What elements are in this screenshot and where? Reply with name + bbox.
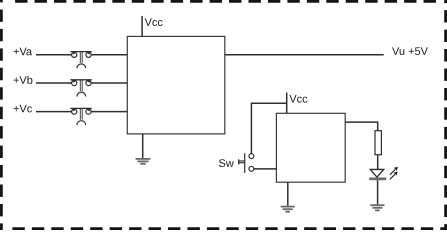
node +Vc: [14, 105, 32, 113]
wire: [91, 54, 127, 56]
connector J3: [70, 108, 91, 125]
connector J1: [70, 52, 91, 69]
ground: [136, 159, 151, 164]
wire (LED to ground): [377, 180, 379, 204]
wire: [36, 82, 72, 84]
ground: [370, 205, 384, 210]
node Vu +5V: [392, 47, 428, 55]
net Vcc (U2): [287, 93, 308, 114]
node +Vb: [14, 76, 33, 84]
connector J2: [70, 80, 91, 97]
wire (resistor to LED): [377, 155, 379, 170]
pushbutton Sw: [239, 153, 254, 173]
wire: [91, 82, 127, 84]
LED D1: [369, 167, 398, 180]
wire (U2 output to resistor): [345, 122, 378, 131]
wire (U2 ground lead): [287, 182, 289, 206]
IC U2: [276, 113, 345, 182]
node +Va: [14, 48, 33, 56]
wire (switch to U2): [254, 168, 276, 170]
wire (Vcc to switch): [251, 103, 286, 153]
wire (U1 ground lead): [142, 134, 144, 158]
net Vcc (U1): [142, 16, 163, 36]
wire: [36, 111, 72, 113]
IC U1: [127, 36, 225, 133]
wire: [36, 54, 72, 56]
resistor R1: [375, 131, 381, 155]
ground: [281, 207, 295, 212]
node Sw: [219, 159, 234, 167]
wire: [91, 111, 127, 113]
wire (U1 output): [225, 54, 384, 56]
